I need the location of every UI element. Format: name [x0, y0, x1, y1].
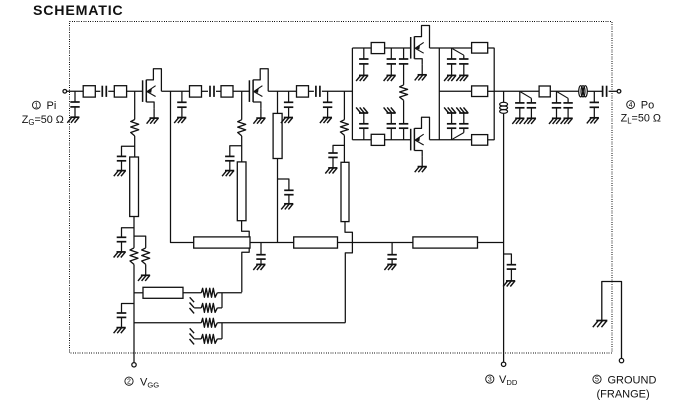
wire L9 to output: [550, 90, 578, 92]
ground for C6: [222, 171, 234, 177]
ground for C19 (mirrored): [384, 107, 396, 113]
capacitor C19 shunt: [387, 113, 396, 140]
wire Q4 drain to combiner: [430, 139, 472, 141]
wire C27 to output terminal: [609, 90, 617, 92]
svg-text:1: 1: [34, 103, 38, 110]
ground for C17: [456, 75, 468, 81]
wire flange ground bracket: [602, 282, 622, 359]
capacitor C17 shunt (bond wire tap): [452, 49, 468, 76]
wire L6 to Q3 gate: [385, 47, 411, 49]
inductor L6 (chip element, top branch): [371, 43, 384, 54]
ground for C24: [549, 118, 561, 124]
inductor L10 series coil: [579, 86, 588, 97]
wire drain combiner bar: [438, 48, 440, 140]
svg-text:Po: Po: [641, 100, 654, 112]
ground for C3: [174, 118, 186, 124]
wire TL4 to VGG row (jogged): [345, 222, 352, 323]
ground for C29: [384, 264, 396, 270]
wire TL6 to output bar: [488, 139, 495, 141]
inductor L5 (chip element): [297, 86, 309, 97]
wire TL8 to TL9: [250, 242, 294, 244]
wire L4 to Q2 gate, node B: [233, 90, 249, 92]
ground for C12: [356, 75, 368, 81]
label FRANGE: [597, 389, 650, 401]
resistor R3 (Q3/Q4 gate bias): [340, 91, 348, 162]
transmission line TL5 (top output): [472, 43, 488, 54]
ground for C11: [325, 168, 337, 174]
wire TL2 to TL8 (jog): [242, 221, 250, 237]
resistor R6 (to ground): [134, 236, 150, 275]
capacitor C15 (odd-mode, bottom half): [399, 124, 408, 140]
wire C2 to L2: [108, 90, 114, 92]
ground for R6: [138, 275, 150, 281]
transmission line TL10 (bias line 3, VDD feed): [413, 237, 478, 248]
wire splitter to bottom branch: [352, 139, 371, 141]
ground (flange): [593, 321, 608, 328]
trim mark for R8: [190, 297, 195, 313]
capacitor C4 (Q1 gate bypass): [117, 146, 135, 170]
capacitor C27 series output: [603, 86, 607, 97]
capacitor C30 (VDD bypass): [504, 254, 516, 281]
wire R5 to VGG node: [133, 264, 135, 362]
capacitor C3 shunt at Q1 drain: [177, 91, 186, 117]
ground for C13: [384, 75, 396, 81]
transistor Q3 (MESFET, final top): [411, 26, 430, 81]
inductor L1 (chip element): [83, 86, 95, 97]
wire combiner bar to TL7: [439, 90, 471, 92]
capacitor C11 (gate bypass): [328, 145, 344, 168]
ground for C22: [512, 118, 524, 124]
resistor R9 (trim row 3): [201, 318, 217, 327]
wire L2 to Q1 gate, node A: [127, 90, 143, 92]
capacitor C12 shunt (top branch): [359, 48, 368, 75]
transmission line TL4 (final gate bias stub): [341, 162, 349, 221]
capacitor C23 shunt (bond wire): [521, 92, 537, 118]
resistor R10 (trim row 4, selectable): [194, 323, 222, 344]
wire L10 to C27: [587, 90, 602, 92]
ground for C8: [281, 118, 293, 124]
wire L7 to Q4 gate: [385, 139, 411, 141]
transmission line TL8 (bias line 1): [194, 237, 250, 248]
capacitor C2 series: [102, 86, 106, 97]
capacitor C6 (Q2 gate bypass): [225, 146, 242, 171]
wire input to C1: [67, 90, 83, 92]
capacitor C7 (TL3 bypass): [278, 179, 294, 204]
wire Q1 drain to interstage: [161, 90, 189, 92]
transistor Q1 (MESFET, first stage): [143, 69, 162, 124]
capacitor C31 (VGG bypass upper): [117, 228, 134, 252]
wire output line: [494, 90, 539, 92]
svg-text:2: 2: [127, 379, 131, 386]
module outline (dashed): [70, 22, 613, 354]
label 5 GROUND: [593, 374, 657, 386]
capacitor C16 shunt (top, with bond wire): [447, 48, 456, 75]
capacitor C8 shunt at Q2 drain: [284, 91, 293, 117]
wire C9 to final stage: [322, 90, 353, 92]
label ZL=50 ohm: [621, 112, 661, 125]
wire VDD rail: [503, 114, 505, 362]
trim mark for R10: [190, 328, 195, 344]
label 3 VDD: [486, 374, 518, 387]
inductor L7 (chip element, bottom branch): [371, 134, 384, 145]
transmission line TL3 (Q2 drain feed): [273, 91, 282, 242]
capacitor C28 bypass: [256, 243, 265, 265]
wire input splitter bar: [351, 48, 353, 140]
terminal 2 VGG: [132, 363, 136, 367]
capacitor C26 shunt: [590, 91, 599, 118]
ground for C4: [114, 171, 126, 177]
resistor R5 (VGG series): [130, 248, 138, 265]
terminal 4 Po output: [617, 89, 621, 93]
wire TL11 to R7: [183, 292, 201, 294]
ground for C20 (mirrored): [444, 107, 456, 113]
transmission line TL6 (bottom output): [472, 135, 488, 146]
wire Q2 drain: [268, 90, 296, 92]
terminal 3 VDD: [501, 362, 505, 366]
ground for C21 (mirrored): [456, 107, 468, 113]
wire TL8 down to VGG row: [242, 248, 249, 292]
capacitor C32 (VGG bypass lower): [117, 304, 134, 328]
transmission line TL11 (VGG line): [134, 287, 183, 298]
svg-text:ZL=50 Ω: ZL=50 Ω: [621, 112, 661, 125]
ground for C31: [114, 252, 126, 258]
capacitor C14 (odd-mode, top half): [399, 48, 408, 85]
resistor R2 (Q2 gate bias): [238, 91, 246, 162]
wire R7 to TL8 drop: [217, 292, 242, 294]
wire Q1 drain feed down: [171, 91, 194, 242]
svg-text:ZG=50 Ω: ZG=50 Ω: [22, 114, 64, 127]
inductor L8 (VDD feed choke): [500, 91, 508, 113]
capacitor C29 bypass: [387, 243, 396, 265]
inductor L3 (chip element): [190, 86, 202, 97]
transmission line TL7 (middle output): [472, 86, 488, 97]
svg-text:GROUND: GROUND: [608, 374, 657, 386]
capacitor C25 shunt (bond wire): [557, 92, 573, 118]
label 4 Po: [627, 100, 655, 112]
svg-text:3: 3: [488, 377, 492, 384]
ground for C28: [253, 264, 265, 270]
inductor L2 (chip element): [114, 86, 126, 97]
terminal 1 Pi input: [63, 89, 67, 93]
capacitor C9 series: [316, 86, 320, 97]
resistor R1 (Q1 gate bias): [131, 91, 139, 157]
label ZG=50 ohm: [22, 114, 64, 127]
wire VGG rail upper: [133, 217, 135, 248]
wire TL10 to VDD rail: [478, 242, 504, 244]
capacitor C20 shunt (bottom): [447, 113, 456, 140]
resistor R4 (odd-mode suppression): [400, 85, 408, 124]
capacitor C1 shunt at input: [70, 91, 79, 117]
ground for C32: [114, 328, 126, 334]
resistor R8 (trim row 2, selectable): [194, 293, 222, 313]
transistor Q4 (MESFET, final bottom): [411, 117, 430, 172]
terminal 5 GROUND: [619, 358, 623, 362]
ground for C10: [320, 118, 332, 124]
ground for C26: [587, 118, 599, 124]
wire TL9 to TL10: [338, 242, 413, 244]
inductor L9 (chip element): [539, 86, 550, 97]
resistor R7 (trim row 1): [201, 288, 217, 297]
svg-text:SCHEMATIC: SCHEMATIC: [33, 3, 123, 19]
svg-text:Pi: Pi: [47, 100, 57, 112]
transmission line TL1 (Q1 gate bias stub): [130, 157, 139, 217]
wire L3 to C5: [202, 90, 209, 92]
wire TL5 to output bar: [488, 47, 495, 49]
transmission line TL9 (bias line 2): [294, 237, 338, 248]
svg-text:5: 5: [595, 377, 599, 384]
title SCHEMATIC: [33, 3, 123, 19]
wire VGG node to R9: [134, 322, 201, 324]
ground for C30: [503, 281, 515, 287]
label 2 VGG: [125, 376, 159, 389]
label 1 Pi: [33, 100, 57, 112]
capacitor C24 shunt: [552, 91, 561, 118]
wire Q3 drain to combiner: [430, 47, 472, 49]
ground for C7: [281, 204, 293, 210]
capacitor C18 shunt (bottom branch): [359, 113, 368, 140]
capacitor C5 series: [210, 86, 214, 97]
wire R9 to TL4 drop: [217, 322, 345, 324]
capacitor C13 shunt: [387, 48, 396, 75]
wire C5 to L4: [216, 90, 221, 92]
svg-text:4: 4: [629, 102, 633, 109]
ground for C23: [524, 118, 536, 124]
wire L5 to C9: [309, 90, 314, 92]
wire L1 to C2: [95, 90, 100, 92]
ground for C1: [67, 117, 79, 123]
ground for C16: [444, 75, 456, 81]
inductor L4 (chip element): [221, 86, 233, 97]
transmission line TL2 (Q2 gate bias stub): [237, 162, 246, 221]
transistor Q2 (MESFET, second stage): [249, 69, 268, 124]
wire splitter to top branch: [352, 47, 371, 49]
ground for C25: [561, 118, 573, 124]
ground for C18 (mirrored): [356, 107, 368, 113]
svg-text:(FRANGE): (FRANGE): [597, 389, 650, 401]
capacitor C10 shunt: [323, 91, 332, 117]
wire TL7 to output bar: [488, 90, 495, 92]
wire output bar: [493, 48, 495, 140]
capacitor C22 shunt output: [515, 91, 524, 118]
capacitor C21 shunt (bond wire tap, bottom): [452, 113, 468, 139]
